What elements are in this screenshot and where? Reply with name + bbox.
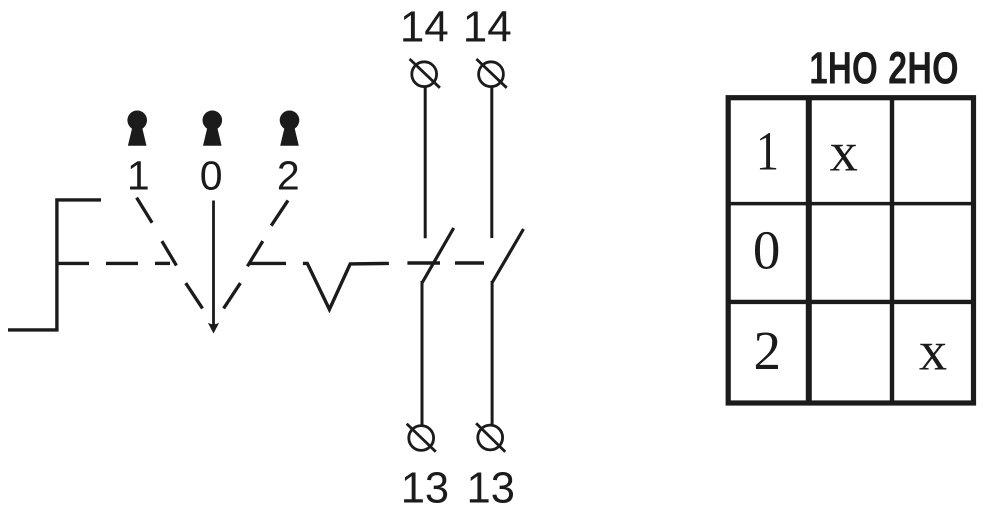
key symbol position 1: [127, 111, 147, 146]
svg-text:x: x: [830, 121, 858, 183]
table: row divider 1: [728, 202, 973, 206]
svg-text:13: 13: [467, 464, 515, 512]
wire: solid start of position travel line: [57, 262, 89, 265]
svg-text:1HO: 1HO: [809, 43, 878, 93]
terminal screw 14 of contact 1NO: [410, 59, 440, 88]
table: column divider 1: [806, 98, 812, 403]
table: row divider 2: [728, 300, 973, 304]
wire: moving contact 1NO to terminal 13: [421, 281, 424, 426]
svg-text:0: 0: [200, 152, 223, 198]
svg-text:1: 1: [756, 121, 779, 182]
svg-text:2: 2: [754, 320, 782, 381]
wire: dashed travel line segment b: [155, 262, 170, 265]
wire: moving contact 2NO to terminal 13: [491, 281, 494, 425]
terminal screw 14 of contact 2NO: [476, 59, 506, 88]
svg-text:x: x: [919, 321, 947, 383]
svg-text:2HO: 2HO: [888, 41, 958, 93]
wire: dashed travel line segment c: [250, 262, 286, 265]
node: actuator position arrow (position 0): [212, 201, 215, 326]
key symbol position 0: [203, 111, 223, 146]
wire: dashed actuating line crossing contact 1: [407, 261, 440, 264]
terminal screw 13 of contact 1NO: [407, 424, 436, 452]
wire: dashed diagonal from position 1 to detent center: [137, 198, 203, 309]
table: outer frame: [728, 98, 973, 403]
contact blade 2NO (normally open): [492, 229, 523, 283]
svg-text:13: 13: [401, 464, 449, 512]
wire: terminal 14 to fixed contact 1NO: [424, 87, 427, 238]
wire: dashed diagonal from position 2 to detent center: [224, 200, 288, 308]
key symbol position 2: [280, 111, 300, 146]
wire: dashed travel line segment a: [106, 262, 138, 265]
wire: operator step line (left handle contour): [8, 200, 101, 330]
svg-text:14: 14: [463, 2, 512, 51]
contact blade 1NO (normally open): [422, 228, 453, 283]
wire: detent V notch and line to contacts: [303, 263, 389, 309]
wire: dashed actuating line crossing contact 2: [455, 261, 484, 264]
terminal screw 13 of contact 2NO: [476, 423, 505, 452]
table: column divider 2: [890, 98, 894, 403]
svg-text:1: 1: [127, 152, 150, 198]
svg-text:2: 2: [277, 152, 300, 198]
wire: terminal 14 to fixed contact 2NO: [490, 87, 493, 238]
svg-text:14: 14: [400, 2, 449, 51]
svg-text:0: 0: [753, 220, 781, 281]
